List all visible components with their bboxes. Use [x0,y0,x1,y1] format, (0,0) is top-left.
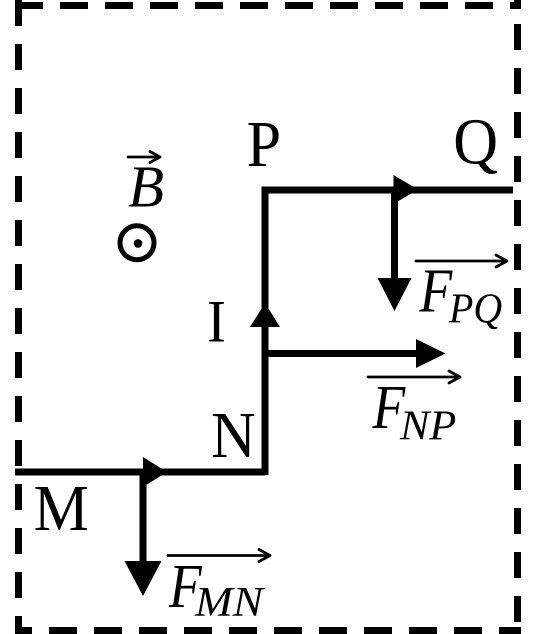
force arrow F_PQ head [378,278,412,311]
field out-of-page symbol: circle [120,226,154,260]
wire segment MN (horizontal) [15,469,265,476]
svg-text:N: N [211,398,256,471]
force arrow F_PQ shaft (downward from PQ wire) [391,190,398,280]
force arrow F_NP shaft (rightward from NP wire) [265,350,418,357]
svg-text:PQ: PQ [448,285,502,332]
vector arrow over F_PQ [416,255,507,267]
svg-text:I: I [207,288,226,355]
svg-text:NP: NP [399,403,456,449]
svg-text:B: B [128,154,164,220]
force arrow F_MN head [125,561,162,596]
svg-text:M: M [34,471,89,544]
current arrowhead on PQ (pointing right) [394,175,419,204]
vector arrow over F_MN [168,550,270,562]
force arrow F_MN shaft (downward from MN wire) [140,472,147,563]
dashed boundary frame: left edge [15,0,22,634]
vector arrow over B [128,152,160,163]
wire segment PQ (horizontal) [262,187,514,194]
wire segment NP (vertical) [262,190,269,475]
dashed boundary frame: right edge [514,0,521,634]
svg-text:P: P [247,107,282,180]
force arrow F_NP head [416,339,446,368]
current arrowhead on MN (pointing right) [143,457,167,487]
current arrowhead on NP (pointing up) [250,303,280,327]
svg-text:Q: Q [453,105,498,178]
vector arrow over F_NP [368,371,460,383]
dashed boundary frame: top edge [15,2,521,9]
svg-text:MN: MN [194,579,266,625]
dashed boundary frame: bottom edge [15,627,521,634]
field out-of-page symbol: dot [134,239,143,248]
